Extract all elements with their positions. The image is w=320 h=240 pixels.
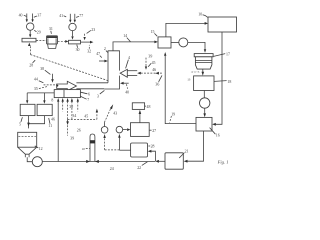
label 14 — [123, 34, 130, 42]
wire pump3 to box16 — [203, 108, 206, 117]
pump 2 — [179, 38, 188, 47]
label 45 — [148, 61, 155, 67]
svg-text:36: 36 — [155, 83, 159, 87]
svg-text:32: 32 — [87, 50, 91, 54]
label 35 — [34, 87, 47, 92]
secondary air outline arrow — [120, 69, 127, 77]
svg-text:27: 27 — [152, 129, 156, 133]
svg-text:5: 5 — [19, 122, 21, 126]
label 32 — [87, 45, 91, 54]
label 47 — [96, 52, 102, 58]
wire pump2 to vessel17 — [188, 42, 206, 52]
label 28b — [148, 144, 154, 148]
vessel 17 — [194, 54, 213, 70]
feed wire 77 — [74, 14, 76, 23]
drop 26 — [66, 119, 69, 135]
feed wire 37 — [31, 14, 33, 23]
svg-text:40: 40 — [19, 14, 23, 18]
label 37 — [34, 13, 42, 17]
label 7 — [81, 96, 90, 102]
label 48 — [145, 105, 151, 109]
grate box 6/7 — [54, 90, 80, 98]
label 19 — [170, 112, 176, 122]
label 30 — [76, 45, 80, 53]
furnace column 2 — [104, 51, 119, 89]
stream 39 drop — [145, 58, 147, 70]
svg-text:28: 28 — [29, 63, 33, 67]
svg-text:46: 46 — [152, 68, 156, 72]
label 10b — [82, 147, 90, 151]
dip tube 10b — [90, 134, 95, 161]
svg-text:28: 28 — [151, 144, 155, 148]
svg-text:6: 6 — [88, 92, 90, 96]
grate return riser — [57, 98, 59, 162]
inlet arrow 47 — [99, 60, 108, 63]
svg-text:24: 24 — [110, 167, 114, 171]
secondary duct — [127, 71, 137, 76]
mixer circle 29 — [27, 23, 41, 35]
svg-text:31: 31 — [49, 27, 53, 31]
svg-text:35: 35 — [34, 87, 38, 91]
wire vessel17 to box18 — [202, 69, 205, 76]
stream 23 drop wire — [83, 34, 85, 40]
svg-text:39: 39 — [148, 55, 152, 59]
label 40 — [19, 14, 27, 18]
return arrow under feeder — [28, 43, 31, 55]
injection diagonal 43 — [104, 104, 113, 122]
merge arrow on duct — [137, 72, 163, 75]
svg-text:8: 8 — [51, 99, 53, 103]
ash vessel 12 — [18, 132, 37, 157]
svg-text:18: 18 — [227, 80, 231, 84]
wire box18 to pump3 — [203, 91, 205, 98]
wire box27 to box48 — [139, 110, 142, 123]
label 23 — [87, 28, 96, 34]
wire circle29 to feeder — [29, 30, 31, 37]
dosing circle d1 — [101, 127, 108, 134]
wire box15 to pump2 — [171, 41, 179, 43]
mixer circle 2 — [69, 23, 76, 30]
merge wire boxes to vessel — [27, 116, 44, 129]
outlet wire 32 — [81, 41, 94, 44]
label 38 — [40, 67, 50, 74]
label 36 — [155, 75, 162, 86]
label 11 — [48, 118, 52, 128]
svg-text:38: 38 — [40, 67, 44, 71]
label 17 — [214, 52, 230, 56]
label 77 — [76, 14, 83, 18]
svg-text:15: 15 — [151, 30, 155, 34]
main bottom wire — [42, 161, 155, 163]
second arrow on duct — [155, 72, 159, 75]
inlet duct — [76, 83, 108, 89]
dosing circle d2 — [116, 126, 123, 133]
svg-text:34: 34 — [72, 114, 76, 118]
svg-text:17: 17 — [226, 52, 230, 56]
label 16 — [210, 128, 220, 138]
svg-text:13: 13 — [187, 78, 191, 82]
flue line 14 — [113, 41, 158, 51]
label 21 — [179, 149, 188, 158]
box 5 — [20, 104, 35, 115]
svg-text:19: 19 — [171, 112, 175, 116]
wire box15 to box10 — [166, 22, 208, 37]
svg-text:4: 4 — [128, 56, 130, 60]
underfire arrows — [62, 98, 80, 119]
wire d1 to diagonal — [103, 122, 105, 126]
box 18 — [194, 76, 214, 91]
svg-text:Fig. 1: Fig. 1 — [217, 159, 229, 164]
stream 40 into furnace — [120, 82, 129, 89]
svg-text:21: 21 — [185, 149, 189, 153]
box 15 — [158, 37, 171, 48]
box 21 — [165, 153, 183, 169]
feeder box 2 — [69, 40, 81, 44]
pump 3 — [200, 98, 210, 108]
svg-text:14: 14 — [123, 34, 127, 38]
svg-text:16: 16 — [216, 134, 220, 138]
riser to circle d2 — [118, 134, 120, 150]
svg-text:40: 40 — [125, 91, 129, 95]
label 4 — [126, 56, 130, 69]
box 16 — [196, 117, 212, 131]
wire d2 to box27 — [123, 128, 131, 131]
label 22 — [137, 162, 147, 170]
svg-text:7: 7 — [87, 98, 89, 102]
svg-text:3: 3 — [97, 95, 99, 99]
ash manifold wire — [27, 92, 54, 94]
svg-text:45: 45 — [152, 61, 156, 65]
label 28 — [29, 60, 35, 67]
svg-text:47: 47 — [96, 52, 100, 56]
svg-text:46: 46 — [51, 117, 55, 121]
label 31 — [49, 27, 53, 34]
label 15 — [151, 30, 158, 36]
svg-text:10: 10 — [82, 147, 86, 151]
label 6 — [81, 92, 90, 96]
label 41 — [59, 14, 66, 18]
wire feeder to mill 31 — [36, 40, 46, 42]
economizer box 10 — [208, 17, 237, 32]
svg-text:77: 77 — [79, 14, 83, 18]
box 48 — [132, 103, 144, 110]
recycle dashed header — [68, 118, 97, 120]
feed wire 41 — [69, 14, 71, 23]
svg-text:37: 37 — [37, 13, 41, 17]
feed wire 40 — [26, 14, 28, 23]
stub to box 28 — [148, 150, 156, 162]
wire box28 to pumps — [105, 149, 131, 151]
drop to box 5 — [26, 93, 28, 104]
label 10 — [198, 12, 207, 17]
svg-text:26: 26 — [77, 128, 81, 132]
svg-text:39: 39 — [70, 136, 74, 140]
label 3 — [97, 90, 105, 98]
label 44 — [34, 78, 44, 83]
wire box16 to box21 — [184, 131, 204, 163]
svg-text:10: 10 — [198, 12, 202, 16]
label 5 — [19, 117, 22, 126]
stream 38 drop — [51, 74, 54, 83]
svg-text:22: 22 — [137, 166, 141, 170]
feeder box (left) — [22, 38, 36, 42]
stream 44 dash-dot — [44, 84, 57, 86]
wire mill to feeder2 — [58, 40, 69, 43]
block arrow fuel inlet — [57, 81, 77, 91]
label 12 — [35, 146, 43, 151]
drop to box 11 — [43, 93, 45, 104]
dashed conveying line 28 — [31, 55, 109, 81]
mill 31 — [47, 36, 58, 49]
svg-text:45: 45 — [84, 114, 88, 118]
label 18 — [214, 80, 231, 84]
box 11 — [37, 104, 52, 115]
box 28 — [131, 143, 148, 157]
right downcomer wire — [212, 32, 222, 126]
svg-text:41: 41 — [59, 14, 63, 18]
wire box16 to box15 riser — [164, 52, 196, 124]
riser to furnace — [96, 109, 98, 120]
svg-text:43: 43 — [113, 111, 117, 115]
label 27 — [149, 129, 156, 133]
wire circle2 to feeder2 — [71, 31, 73, 40]
svg-text:48: 48 — [147, 105, 151, 109]
converge arrows at tube — [86, 160, 99, 163]
riser to dosing circle d1 — [103, 134, 105, 150]
wire vessel to pump — [27, 157, 32, 161]
svg-text:12: 12 — [39, 147, 43, 151]
svg-text:29: 29 — [37, 30, 41, 34]
svg-text:11: 11 — [48, 124, 52, 128]
svg-text:30: 30 — [69, 105, 73, 109]
box 27 — [131, 123, 150, 137]
svg-text:19·IV·B: 19·IV·B — [191, 71, 200, 74]
svg-text:44: 44 — [34, 78, 38, 82]
svg-text:30: 30 — [76, 48, 80, 52]
wire box21 left with arrow — [155, 160, 165, 163]
pump circle bottom-left — [32, 157, 42, 167]
svg-text:23: 23 — [91, 28, 95, 32]
svg-text:2: 2 — [104, 47, 106, 51]
label 2 — [104, 47, 108, 53]
junction dot — [56, 85, 58, 87]
